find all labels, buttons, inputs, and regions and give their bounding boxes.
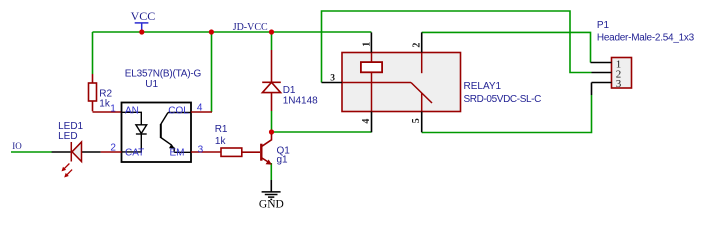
svg-text:1: 1	[361, 42, 372, 47]
header P1 box	[612, 58, 632, 89]
svg-text:U1: U1	[145, 79, 158, 90]
svg-text:g1: g1	[277, 155, 289, 166]
power flag VCC	[135, 23, 149, 30]
svg-text:GND: GND	[259, 199, 284, 211]
svg-text:CAT: CAT	[125, 148, 144, 159]
LED LED1	[52, 151, 101, 153]
resistor R2	[89, 74, 122, 112]
junction dot D1 top	[269, 29, 274, 34]
wire relay pin5 to header pin3	[422, 95, 592, 133]
svg-text:EL357N(B)(TA)-G: EL357N(B)(TA)-G	[125, 69, 202, 80]
svg-text:5: 5	[411, 118, 422, 123]
wire relay pin2 to header pin1	[422, 32, 591, 62]
svg-text:2: 2	[412, 43, 423, 48]
wire Q1 emitter down	[270, 163, 272, 180]
svg-text:IO: IO	[12, 141, 22, 151]
header pin stubs	[591, 63, 612, 96]
junction dot U1 pin4	[209, 29, 214, 34]
LED1 light arrows	[62, 164, 73, 178]
relay pin stubs	[322, 32, 422, 132]
diode D1	[262, 50, 281, 111]
relay coil	[371, 53, 373, 112]
ground	[262, 192, 281, 200]
svg-text:4: 4	[361, 119, 372, 124]
junction dot Q1 collector	[269, 129, 274, 134]
relay RELAY1 box	[342, 53, 461, 112]
svg-text:1: 1	[110, 104, 116, 115]
wire emitter to ground black	[270, 180, 272, 192]
junction dot VCC	[139, 29, 144, 34]
transistor Q1	[261, 134, 271, 163]
wire R2 top vertical	[92, 32, 94, 74]
svg-text:VCC: VCC	[131, 9, 156, 23]
svg-text:1k: 1k	[99, 98, 111, 109]
svg-text:P1: P1	[597, 20, 610, 31]
wire D1 bottom	[271, 111, 273, 132]
wire JD-VCC horizontal	[93, 31, 372, 33]
wire U1 pin4 vertical	[211, 32, 213, 112]
svg-text:COL: COL	[168, 106, 189, 117]
svg-text:Header-Male-2.54_1x3: Header-Male-2.54_1x3	[597, 33, 695, 44]
svg-text:LED: LED	[58, 131, 77, 142]
svg-text:3: 3	[330, 74, 335, 84]
optocoupler U1 box	[122, 103, 192, 163]
U1 internal phototransistor	[161, 113, 191, 153]
svg-text:SRD-05VDC-SL-C: SRD-05VDC-SL-C	[464, 94, 542, 105]
resistor R1	[221, 148, 260, 156]
svg-text:3: 3	[616, 78, 622, 90]
U1 pin stubs	[191, 112, 221, 152]
svg-text:EM: EM	[170, 148, 185, 159]
wire IO	[11, 151, 52, 153]
U1 internal diode	[122, 112, 147, 152]
svg-text:1k: 1k	[215, 136, 227, 147]
svg-text:R1: R1	[215, 124, 228, 135]
svg-text:AN: AN	[125, 106, 139, 117]
svg-text:RELAY1: RELAY1	[464, 81, 502, 92]
svg-text:3: 3	[198, 145, 204, 156]
wire D1 top	[271, 32, 273, 50]
wire relay pin3 to header pin2	[322, 11, 592, 83]
relay contacts	[342, 53, 432, 112]
svg-text:1N4148: 1N4148	[283, 95, 318, 106]
svg-text:4: 4	[197, 103, 203, 114]
wire Q1 collector to relay pin4	[272, 131, 372, 133]
svg-text:JD-VCC: JD-VCC	[233, 22, 268, 33]
